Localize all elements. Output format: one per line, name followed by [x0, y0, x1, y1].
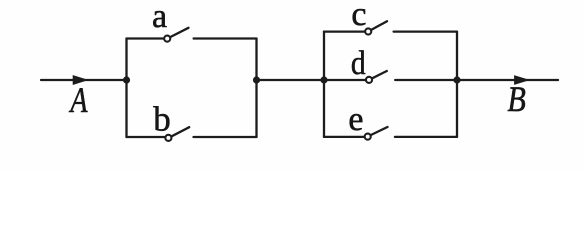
node junction right of block 1 — [253, 76, 260, 83]
wire input lead A — [41, 79, 127, 81]
switch a — [127, 28, 257, 42]
node junction left of block 2 — [320, 76, 327, 83]
wire block1 left vertical — [125, 39, 127, 138]
svg-text:a: a — [152, 0, 167, 35]
svg-text:B: B — [507, 79, 525, 119]
svg-text:c: c — [351, 0, 366, 33]
wire block2 left vertical — [323, 32, 325, 137]
switch d — [324, 71, 457, 83]
svg-text:b: b — [153, 100, 171, 139]
wire output lead B — [457, 79, 558, 81]
arrow output direction — [515, 76, 529, 84]
wire middle link — [257, 79, 325, 81]
switch e — [324, 127, 457, 140]
node junction left of block 1 — [123, 76, 130, 83]
svg-text:e: e — [348, 101, 363, 138]
wire block1 right vertical — [255, 39, 257, 138]
switch c — [324, 21, 457, 34]
wire block2 right vertical — [456, 32, 458, 137]
node junction right of block 2 — [453, 76, 460, 83]
svg-text:d: d — [351, 45, 366, 82]
switch b — [127, 127, 257, 141]
svg-text:A: A — [69, 80, 89, 120]
arrow input direction — [73, 76, 87, 85]
